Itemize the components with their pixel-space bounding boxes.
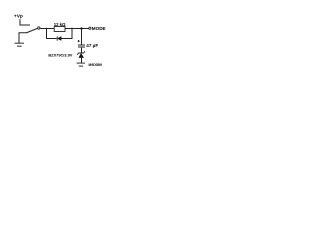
svg-text:BZX79C/3.9V: BZX79C/3.9V <box>48 53 72 58</box>
wire parallel branch left leg <box>47 28 57 39</box>
ground <box>77 63 85 67</box>
node junction dot <box>80 27 82 29</box>
zener diode Z1 body (points up) <box>79 53 84 62</box>
svg-text:M9D0B9: M9D0B9 <box>89 63 102 67</box>
ground <box>15 43 24 47</box>
node +Vp <box>14 14 23 20</box>
switch S1 lever and pole contact <box>26 27 40 33</box>
capacitor C1 plates <box>78 45 85 48</box>
wire capacitor to zener <box>81 48 83 53</box>
node MODE terminal <box>89 26 106 31</box>
zener diode Z1 cathode bar with wings <box>77 51 85 54</box>
wire switch pole to resistor <box>40 28 54 30</box>
svg-text:MODE: MODE <box>92 26 106 31</box>
wire node down to capacitor <box>81 29 83 45</box>
svg-text:47 µF: 47 µF <box>86 43 98 48</box>
svg-text:+Vp: +Vp <box>14 14 23 20</box>
value 47 uF <box>86 43 98 48</box>
diode D1 (points left) <box>57 36 61 40</box>
resistor R1 <box>54 27 65 32</box>
label part number <box>89 63 102 67</box>
wire +Vp down and right to switch upper contact <box>20 19 30 25</box>
wire resistor to node <box>65 28 89 30</box>
label BZX79C/3.9V <box>48 53 72 58</box>
wire parallel branch right leg <box>61 28 72 39</box>
value 12 kOhm <box>54 22 66 27</box>
wire switch lower contact to ground <box>19 33 27 43</box>
capacitor C1 polarity plus <box>78 40 80 42</box>
